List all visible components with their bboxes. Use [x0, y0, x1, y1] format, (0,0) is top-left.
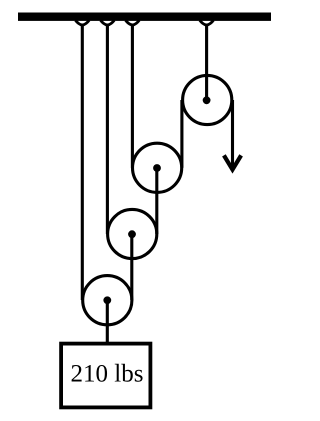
svg-text:210 lbs: 210 lbs	[71, 361, 144, 388]
